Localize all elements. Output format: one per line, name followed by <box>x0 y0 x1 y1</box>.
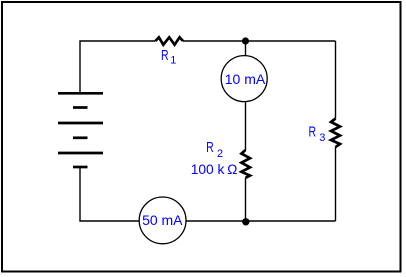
wire top-left horizontal and left vertical to battery <box>80 41 155 93</box>
wire battery negative to bottom-left corner and to ammeter M2 <box>80 167 139 221</box>
svg-text:1: 1 <box>170 55 176 67</box>
node junction dot top <box>242 37 249 44</box>
label R2 <box>206 139 223 160</box>
svg-text:R: R <box>309 124 317 141</box>
svg-text:Ω: Ω <box>227 162 237 177</box>
resistor R3 <box>331 119 340 148</box>
svg-text:10 mA: 10 mA <box>225 71 266 87</box>
ammeter M1 10 mA <box>221 56 267 102</box>
wire from R2 to bottom node <box>245 178 247 221</box>
resistor R1 <box>155 37 183 44</box>
wire bottom from M2 through node to bottom-right corner <box>186 220 336 222</box>
wire stub from top node to ammeter M1 <box>245 43 247 56</box>
wire right vertical top segment <box>335 41 337 119</box>
svg-text:3: 3 <box>319 132 325 144</box>
svg-text:100 k: 100 k <box>191 162 225 177</box>
label R1 <box>161 47 176 66</box>
wire from M1 to R2 <box>245 102 247 150</box>
wire top from R1 to right corner <box>183 40 336 42</box>
svg-text:R: R <box>161 47 169 64</box>
resistor R2 <box>241 150 250 178</box>
battery <box>58 93 103 167</box>
ammeter M2 50 mA <box>139 197 186 244</box>
svg-text:R: R <box>206 139 214 156</box>
svg-text:50 mA: 50 mA <box>142 212 183 228</box>
svg-text:2: 2 <box>217 148 223 160</box>
value label 100 kOhm <box>191 162 238 177</box>
wire right vertical bottom segment <box>335 147 337 221</box>
node junction dot bottom <box>242 218 249 225</box>
label R3 <box>309 124 326 144</box>
